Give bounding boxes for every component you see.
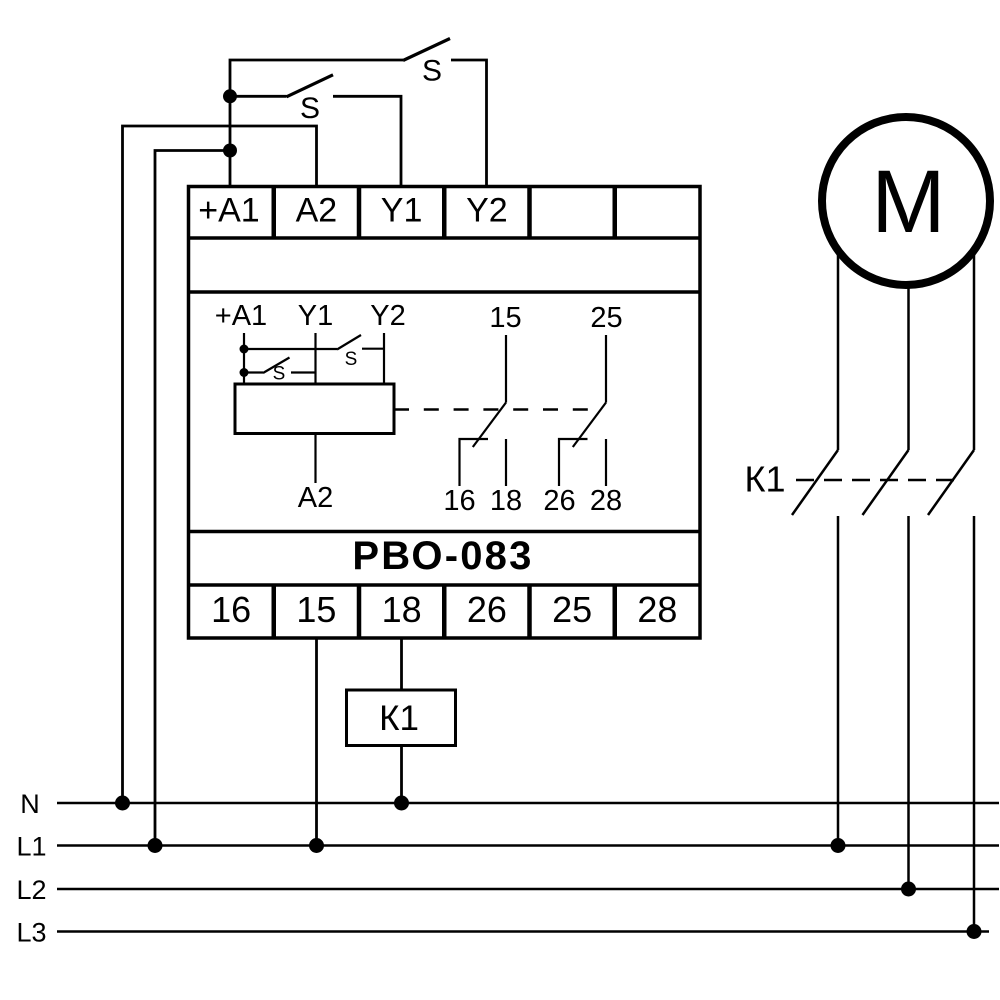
svg-text:S: S xyxy=(422,55,442,88)
contact 26 hook xyxy=(559,439,588,486)
contact 25 vertical xyxy=(605,335,607,403)
contact 15 vertical xyxy=(505,335,507,403)
contactor K1 contact blade 1 xyxy=(792,450,838,515)
wire contact 2 to L2 xyxy=(907,516,910,889)
svg-text:Y1: Y1 xyxy=(381,192,423,230)
inner switch S (to Y1) wire xyxy=(244,371,263,373)
inner wire A2 vertical xyxy=(314,434,316,484)
contact 25-26 blade xyxy=(573,403,606,448)
svg-text:К1: К1 xyxy=(745,459,786,500)
junction dot 15/L1 xyxy=(309,838,324,853)
svg-text:18: 18 xyxy=(382,589,422,630)
contact 28 stub xyxy=(605,439,607,486)
contact 16 hook xyxy=(460,439,489,486)
svg-text:Y1: Y1 xyxy=(298,300,333,332)
svg-text:L1: L1 xyxy=(16,832,46,862)
relay function block rectangle xyxy=(235,384,394,434)
wire from +A1 node to switch S (lower) xyxy=(230,95,287,98)
junction dot on +A1 vertical xyxy=(223,144,237,158)
wire from switch S (upper) to Y2 terminal xyxy=(451,60,487,186)
svg-text:РВО-083: РВО-083 xyxy=(352,534,533,578)
top terminal dividers xyxy=(274,187,615,239)
contactor K1 linkage dashed line xyxy=(796,479,962,482)
top terminal row bottom line xyxy=(189,236,701,240)
contactor K1 contact blade 3 xyxy=(928,450,974,515)
name band bottom line xyxy=(189,583,701,587)
L3 rail xyxy=(57,930,989,933)
svg-text:25: 25 xyxy=(590,302,622,334)
switch S (upper) blade xyxy=(403,39,450,61)
svg-text:N: N xyxy=(20,789,40,819)
junction dot motor3/L3 xyxy=(967,924,982,939)
relay outer box xyxy=(189,187,701,639)
inner wire Y1 vertical xyxy=(314,333,316,384)
svg-text:15: 15 xyxy=(489,302,521,334)
mechanical linkage dashed line xyxy=(394,408,598,410)
switch S (lower) blade xyxy=(287,75,334,97)
motor phase wire 2 xyxy=(907,280,910,450)
svg-text:16: 16 xyxy=(443,485,475,517)
L1 rail xyxy=(57,844,999,847)
svg-text:S: S xyxy=(300,92,320,125)
top band line xyxy=(189,290,701,294)
junction dot motor1/L1 xyxy=(831,838,846,853)
svg-text:+A1: +A1 xyxy=(198,192,259,230)
inner wire Y2 vertical xyxy=(383,333,385,384)
svg-text:A2: A2 xyxy=(298,482,333,514)
wire from N rail to A2 terminal xyxy=(123,126,317,803)
junction dot motor2/L2 xyxy=(901,882,916,897)
svg-text:S: S xyxy=(345,349,358,370)
junction dot left vertical/N xyxy=(115,796,130,811)
svg-text:L3: L3 xyxy=(16,918,46,948)
svg-text:M: M xyxy=(871,151,945,251)
N rail xyxy=(57,802,999,805)
junction dot K1/N xyxy=(394,796,409,811)
wire top from +A1 to switch S (upper) xyxy=(230,60,403,186)
inner switch s (to Y2) blade xyxy=(337,335,361,350)
inner switch s (to Y2) wire xyxy=(244,348,337,350)
svg-text:Y2: Y2 xyxy=(370,300,405,332)
inner switch s (to Y2) stub xyxy=(362,348,384,350)
contactor coil K1 box xyxy=(347,690,456,746)
svg-text:26: 26 xyxy=(467,589,507,630)
svg-text:A2: A2 xyxy=(296,192,338,230)
inner switch S (to Y1) blade xyxy=(263,358,290,374)
svg-text:28: 28 xyxy=(637,589,677,630)
wire contact 3 to L3 xyxy=(973,516,976,932)
svg-text:Y2: Y2 xyxy=(466,192,508,230)
svg-text:К1: К1 xyxy=(379,699,419,738)
bottom terminal dividers xyxy=(274,585,615,638)
inner area bottom line xyxy=(189,530,701,534)
svg-text:25: 25 xyxy=(552,589,592,630)
wire from switch S (lower) to Y1 terminal xyxy=(333,96,401,186)
inner junction dot lower xyxy=(240,368,249,377)
wire terminal 15 to L1 rail xyxy=(315,638,318,846)
wire coil K1 to N rail xyxy=(400,746,403,804)
svg-text:26: 26 xyxy=(543,485,575,517)
inner wire +A1 vertical xyxy=(243,333,245,384)
svg-text:+A1: +A1 xyxy=(215,300,267,332)
svg-text:L2: L2 xyxy=(16,875,46,905)
inner switch S (to Y1) stub xyxy=(291,371,316,373)
wire contact 1 to L1 xyxy=(837,516,840,846)
contact 18 stub xyxy=(505,439,507,486)
svg-text:S: S xyxy=(273,364,286,385)
wire terminal 18 to coil K1 xyxy=(400,638,403,690)
wire from L1 rail to +A1 terminal xyxy=(155,151,230,846)
motor phase wire 1 xyxy=(837,250,840,450)
motor phase wire 3 xyxy=(973,250,976,450)
svg-text:28: 28 xyxy=(590,485,622,517)
L2 rail xyxy=(57,888,999,891)
svg-text:15: 15 xyxy=(296,589,336,630)
svg-text:18: 18 xyxy=(490,485,522,517)
motor M circle xyxy=(822,117,990,285)
junction dot +A1/switch lower xyxy=(223,89,237,103)
contact 15-16 blade xyxy=(473,403,506,448)
inner junction dot upper xyxy=(240,345,249,354)
junction dot left vertical/L1 xyxy=(148,838,163,853)
contactor K1 contact blade 2 xyxy=(863,450,909,515)
svg-text:16: 16 xyxy=(211,589,251,630)
